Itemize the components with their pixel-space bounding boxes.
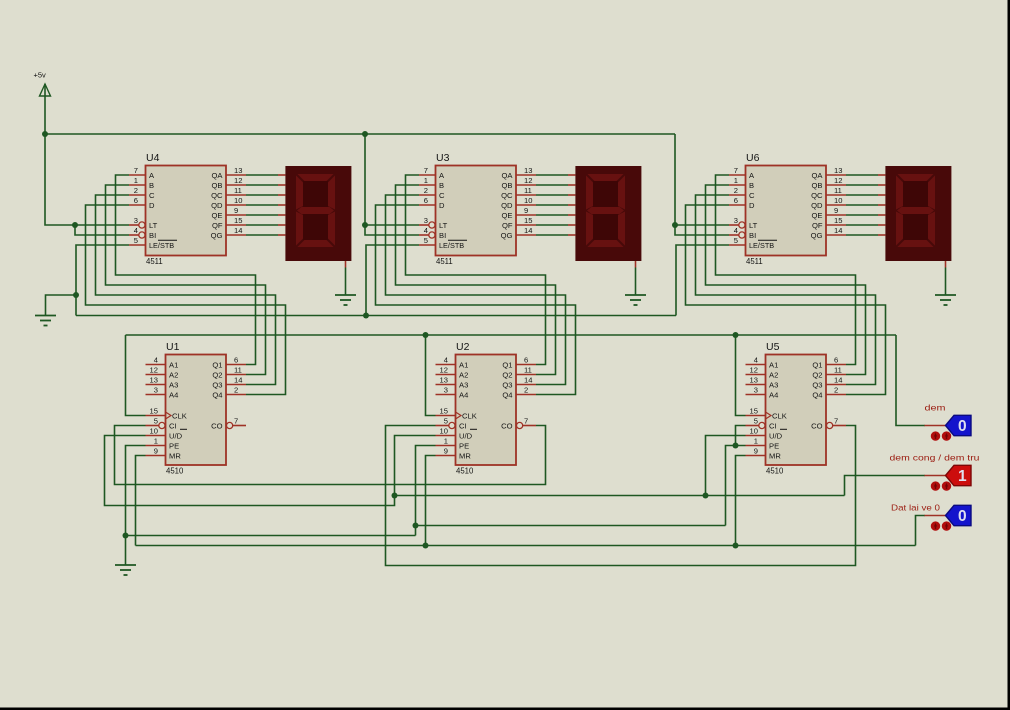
wire net SEG3d <box>846 204 878 206</box>
U5 pin 13 A3 <box>746 376 779 390</box>
svg-text:C: C <box>749 191 755 200</box>
svg-text:9: 9 <box>834 206 838 215</box>
wire net PE U5 CI tie <box>736 426 746 446</box>
DS3 segment b <box>928 176 935 210</box>
op U4 4511 BCD-to-7seg decoder body <box>146 166 227 256</box>
svg-text:A2: A2 <box>769 371 778 380</box>
wire net SEG1f <box>246 224 278 226</box>
U4 pin 7 A <box>129 166 155 180</box>
U6 pin 6 D <box>729 196 755 210</box>
svg-text:10: 10 <box>440 427 448 436</box>
svg-text:4510: 4510 <box>766 467 784 476</box>
svg-text:5: 5 <box>154 417 158 426</box>
logicstate LS1 body <box>946 415 972 435</box>
svg-text:4: 4 <box>444 356 448 365</box>
svg-text:2: 2 <box>234 386 238 395</box>
svg-text:7: 7 <box>424 166 428 175</box>
svg-text:B: B <box>439 181 444 190</box>
wire net MR U2 branch <box>426 456 436 546</box>
svg-text:10: 10 <box>750 427 758 436</box>
svg-text:A4: A4 <box>459 391 468 400</box>
junction CLK U2 <box>423 332 429 338</box>
svg-text:3: 3 <box>734 216 738 225</box>
svg-text:CLK: CLK <box>172 412 187 421</box>
ground B (PE net) <box>115 565 136 575</box>
U1 pin 14 Q3 <box>212 376 246 390</box>
svg-text:A3: A3 <box>769 381 778 390</box>
U3 pin 4 BI <box>419 226 446 240</box>
wire net GND U3 LE/STB drop <box>366 245 419 316</box>
U5 pin 11 Q2 <box>812 366 846 380</box>
wire net MR U1 branch <box>136 456 146 546</box>
U3 pin 1 B <box>419 176 444 190</box>
svg-text:QC: QC <box>501 191 513 200</box>
wire net +5V U6 BI branch <box>675 225 729 235</box>
svg-text:6: 6 <box>834 356 838 365</box>
svg-text:15: 15 <box>524 216 532 225</box>
wire net U/D rail <box>395 495 845 497</box>
svg-text:1: 1 <box>958 468 967 485</box>
svg-text:11: 11 <box>524 186 532 195</box>
svg-text:9: 9 <box>444 447 448 456</box>
svg-text:4: 4 <box>734 226 738 235</box>
U1 pin 6 Q1 <box>212 356 246 370</box>
U1 pin 2 Q4 <box>212 386 246 400</box>
svg-text:U1: U1 <box>166 341 180 353</box>
DS1 segment pin f <box>278 224 285 226</box>
DS1 segment pin a <box>278 174 285 176</box>
U4 pin 10 QD <box>211 196 246 210</box>
wire net BCD1 C/Q3 <box>96 195 276 385</box>
DS2 segment pin a <box>568 174 575 176</box>
wire net SEG3b <box>846 184 878 186</box>
U4 pin 2 C <box>129 186 155 200</box>
junction PE ground B <box>123 533 129 539</box>
DS3 digit hole top <box>903 181 928 207</box>
U5 pin 10 U/D <box>746 427 788 441</box>
wire net +5V U4 BI branch <box>75 225 129 235</box>
svg-text:11: 11 <box>834 366 842 375</box>
DS3 segment pin b <box>878 184 885 186</box>
U6 pin 11 QC <box>811 186 846 200</box>
svg-text:6: 6 <box>424 196 428 205</box>
U1 pin 11 Q2 <box>212 366 246 380</box>
svg-text:dem: dem <box>925 403 946 413</box>
svg-text:BI: BI <box>749 231 756 240</box>
svg-text:B: B <box>149 181 154 190</box>
svg-text:7: 7 <box>524 417 528 426</box>
wire net MR U5 branch <box>736 456 746 546</box>
U6 pin 14 QG <box>811 226 846 240</box>
DS2 segment pin g <box>568 234 575 236</box>
svg-text:Q1: Q1 <box>212 361 222 370</box>
svg-text:7: 7 <box>834 417 838 426</box>
svg-text:15: 15 <box>750 407 758 416</box>
svg-text:MR: MR <box>169 452 181 461</box>
DS2 common pin <box>635 261 637 268</box>
wire net BCD3 C/Q3 <box>696 195 876 385</box>
wire net +5V U3 branch <box>365 134 419 225</box>
svg-text:D: D <box>149 201 155 210</box>
ground A (+5v column) <box>35 316 56 326</box>
wire net +5V rail top <box>45 133 675 135</box>
svg-text:QD: QD <box>211 201 223 210</box>
svg-text:Q2: Q2 <box>212 371 222 380</box>
DS3 segment f <box>896 176 903 210</box>
wire net PE U1 drop to ground B <box>126 446 146 566</box>
U6 pin 9 QE <box>812 206 846 220</box>
U5 pin 4 A1 <box>746 356 779 370</box>
svg-text:QD: QD <box>501 201 513 210</box>
DS2 segment pin f <box>568 224 575 226</box>
wire net BCD3 D/Q4 <box>686 205 886 395</box>
DS2 segment a <box>588 174 624 181</box>
junction +5V U4 LT <box>72 222 78 228</box>
svg-text:QB: QB <box>212 181 223 190</box>
DS3 segment pin c <box>878 194 885 196</box>
svg-text:2: 2 <box>734 186 738 195</box>
DS2 segment pin d <box>568 204 575 206</box>
svg-text:9: 9 <box>234 206 238 215</box>
U6 pin 4 BI <box>729 226 756 240</box>
DS1 segment e <box>296 212 303 246</box>
svg-text:9: 9 <box>754 447 758 456</box>
DS3 segment d <box>898 240 934 247</box>
DS2 segment pin b <box>568 184 575 186</box>
svg-text:4: 4 <box>134 226 138 235</box>
svg-text:+5v: +5v <box>34 71 47 80</box>
junction CLK U5 <box>733 332 739 338</box>
svg-text:QF: QF <box>212 221 223 230</box>
junction PE U2 <box>413 523 419 529</box>
svg-text:4511: 4511 <box>746 257 763 266</box>
U4 pin 13 QA <box>212 166 246 180</box>
svg-text:7: 7 <box>734 166 738 175</box>
svg-text:LT: LT <box>439 221 448 230</box>
U2 pin 9 MR <box>436 447 472 461</box>
U1 pin 15 CLK <box>146 407 187 421</box>
wire net SEG2d <box>536 204 568 206</box>
svg-text:2: 2 <box>834 386 838 395</box>
svg-text:CI: CI <box>459 422 467 431</box>
wire net CI2 U2.CI to U5.CO <box>386 426 856 566</box>
wire net MR to logicstate Dat lai ve 0 <box>916 516 926 546</box>
window border right <box>1008 0 1010 710</box>
svg-text:4511: 4511 <box>146 257 163 266</box>
DS1 segment g <box>297 207 334 214</box>
U3 pin 12 QB <box>502 176 536 190</box>
U1 pin 13 A3 <box>146 376 179 390</box>
svg-text:QA: QA <box>812 171 824 180</box>
svg-text:QC: QC <box>811 191 823 200</box>
U6 pin 15 QF <box>812 216 846 230</box>
DS3 segment g <box>897 207 934 214</box>
svg-text:U5: U5 <box>766 341 780 353</box>
svg-text:Q1: Q1 <box>812 361 822 370</box>
DS2 segment b <box>618 176 625 210</box>
svg-text:QA: QA <box>502 171 514 180</box>
svg-text:13: 13 <box>150 376 158 385</box>
svg-text:MR: MR <box>769 452 781 461</box>
ground DS2 <box>625 295 646 305</box>
wire net CLK rail <box>126 334 897 336</box>
U1 pin 12 A2 <box>146 366 179 380</box>
junction U/D U2 <box>392 493 398 499</box>
DS1 segment pin c <box>278 194 285 196</box>
svg-text:BI: BI <box>439 231 446 240</box>
U5 pin 9 MR <box>746 447 782 461</box>
DS3 segment pin f <box>878 224 885 226</box>
svg-text:14: 14 <box>834 226 842 235</box>
U4 pin 4 BI <box>129 226 156 240</box>
svg-text:12: 12 <box>440 366 448 375</box>
svg-text:4511: 4511 <box>436 257 453 266</box>
wire net SEG2a <box>536 174 568 176</box>
U6 pin 13 QA <box>812 166 846 180</box>
svg-text:5: 5 <box>754 417 758 426</box>
DS1 segment c <box>328 212 335 246</box>
svg-text:A2: A2 <box>169 371 178 380</box>
U6 pin 12 QB <box>812 176 846 190</box>
svg-text:6: 6 <box>524 356 528 365</box>
U1 pin 4 A1 <box>146 356 179 370</box>
svg-text:LT: LT <box>749 221 758 230</box>
U2 pin 6 Q1 <box>502 356 536 370</box>
svg-text:4: 4 <box>424 226 428 235</box>
wire net PE rail2 <box>416 525 726 527</box>
logicstate LS3 body <box>946 505 972 525</box>
wire net SEG3f <box>846 224 878 226</box>
junction MR U5 <box>733 543 739 549</box>
U1 pin 7 CO <box>211 417 246 431</box>
svg-text:4: 4 <box>154 356 158 365</box>
wire net BCD2 D/Q4 <box>376 205 576 395</box>
svg-text:14: 14 <box>234 226 242 235</box>
U4 pin 6 D <box>129 196 155 210</box>
DS2 segment pin c <box>568 194 575 196</box>
power +5v symbol <box>40 84 51 134</box>
wire net SEG2g <box>536 234 568 236</box>
svg-text:CO: CO <box>501 422 512 431</box>
svg-text:10: 10 <box>524 196 532 205</box>
svg-text:Q3: Q3 <box>212 381 222 390</box>
7-segment display DS1 body <box>285 166 351 261</box>
wire net GND rail <box>76 315 676 317</box>
svg-text:U/D: U/D <box>459 432 473 441</box>
svg-text:5: 5 <box>134 236 138 245</box>
DS2 segment pin e <box>568 214 575 216</box>
U5 pin 5 CI <box>746 417 777 431</box>
logicstate LS2 toggle arrows <box>931 481 951 490</box>
U2 pin 2 Q4 <box>502 386 536 400</box>
U4 pin 3 LT <box>129 216 158 230</box>
wire net U/D to logicstate dem cong/dem tru <box>845 476 926 496</box>
svg-text:14: 14 <box>234 376 242 385</box>
wire net BCD2 C/Q3 <box>386 195 566 385</box>
wire net BCD1 A/Q1 <box>116 175 256 365</box>
svg-text:10: 10 <box>834 196 842 205</box>
logicstate LS2 pin <box>925 475 946 477</box>
DS2 segment d <box>588 240 624 247</box>
svg-text:12: 12 <box>834 176 842 185</box>
svg-text:BI: BI <box>149 231 156 240</box>
junction GND at (76,295) <box>73 292 79 298</box>
U4 pin 1 B <box>129 176 154 190</box>
wire net SEG1a <box>246 174 278 176</box>
svg-text:U/D: U/D <box>769 432 783 441</box>
svg-text:QG: QG <box>501 231 513 240</box>
7-segment display DS3 body <box>885 166 951 261</box>
U3 pin 10 QD <box>501 196 536 210</box>
wire net SEG3c <box>846 194 878 196</box>
svg-text:15: 15 <box>234 216 242 225</box>
U2 pin 10 U/D <box>436 427 478 441</box>
DS3 segment e <box>896 212 903 246</box>
U3 pin 13 QA <box>502 166 536 180</box>
wire net PE rail1 <box>126 535 416 537</box>
U2 pin 11 Q2 <box>502 366 536 380</box>
junction +5V at power drop <box>42 131 48 137</box>
svg-text:QB: QB <box>812 181 823 190</box>
wire net BCD3 B/Q2 <box>706 185 866 375</box>
window border bottom <box>0 708 1010 710</box>
svg-text:5: 5 <box>734 236 738 245</box>
U6 pin 10 QD <box>811 196 846 210</box>
svg-text:13: 13 <box>234 166 242 175</box>
U5 pin 1 PE <box>746 437 780 451</box>
DS2 segment f <box>586 176 593 210</box>
svg-text:15: 15 <box>150 407 158 416</box>
svg-text:Q4: Q4 <box>502 391 512 400</box>
svg-text:Q3: Q3 <box>502 381 512 390</box>
svg-text:15: 15 <box>834 216 842 225</box>
U6 pin 3 LT <box>729 216 758 230</box>
logicstate LS3 pin <box>925 515 946 517</box>
DS1 segment pin b <box>278 184 285 186</box>
U5 pin 6 Q1 <box>812 356 846 370</box>
DS3 segment pin g <box>878 234 885 236</box>
svg-text:14: 14 <box>524 226 532 235</box>
svg-text:11: 11 <box>524 366 532 375</box>
wire net SEG3g <box>846 234 878 236</box>
svg-text:C: C <box>149 191 155 200</box>
DS3 digit hole bottom <box>903 214 928 240</box>
U3 pin 3 LT <box>419 216 448 230</box>
U5 pin 14 Q3 <box>812 376 846 390</box>
U3 pin 15 QF <box>502 216 536 230</box>
wire net BCD1 B/Q2 <box>106 185 266 375</box>
logicstate LS3 toggle arrows <box>931 521 951 530</box>
svg-text:10: 10 <box>150 427 158 436</box>
svg-text:U2: U2 <box>456 341 470 353</box>
U5 pin 15 CLK <box>746 407 787 421</box>
wire net SEG3a <box>846 174 878 176</box>
svg-text:Dat lai ve 0: Dat lai ve 0 <box>891 503 940 513</box>
svg-text:U3: U3 <box>436 152 450 164</box>
DS3 segment pin e <box>878 214 885 216</box>
svg-text:Q1: Q1 <box>502 361 512 370</box>
U3 pin 6 D <box>419 196 445 210</box>
wire DS3 common to ground <box>945 268 947 296</box>
svg-text:4510: 4510 <box>166 467 184 476</box>
svg-text:3: 3 <box>754 386 758 395</box>
svg-text:0: 0 <box>958 508 967 525</box>
DS3 segment c <box>928 212 935 246</box>
svg-text:QG: QG <box>211 231 223 240</box>
U6 pin 2 C <box>729 186 755 200</box>
wire net PE U2 branch <box>416 446 436 536</box>
U4 pin 9 QE <box>212 206 246 220</box>
svg-text:2: 2 <box>134 186 138 195</box>
svg-text:Q3: Q3 <box>812 381 822 390</box>
junction MR U2 <box>423 543 429 549</box>
U2 pin 5 CI <box>436 417 467 431</box>
wire net U/D U5 branch <box>706 436 746 496</box>
junction +5V U6 LT <box>672 222 678 228</box>
svg-text:QG: QG <box>811 231 823 240</box>
svg-text:2: 2 <box>524 386 528 395</box>
wire net GND U4 LE/STB drop <box>76 245 129 316</box>
U2 pin 3 A4 <box>436 386 469 400</box>
svg-text:6: 6 <box>134 196 138 205</box>
logicstate LS2 body <box>946 465 972 485</box>
logicstate LS1 pin <box>925 425 946 427</box>
U1 pin 10 U/D <box>146 427 188 441</box>
wire net MR rail <box>136 545 916 547</box>
svg-text:QC: QC <box>211 191 223 200</box>
DS2 digit hole top <box>593 181 618 207</box>
svg-text:6: 6 <box>734 196 738 205</box>
svg-text:LE/STB: LE/STB <box>439 241 464 250</box>
svg-text:LE/STB: LE/STB <box>749 241 774 250</box>
svg-text:12: 12 <box>524 176 532 185</box>
svg-text:Q2: Q2 <box>502 371 512 380</box>
svg-text:1: 1 <box>424 176 428 185</box>
svg-text:A4: A4 <box>169 391 178 400</box>
wire net SEG1d <box>246 204 278 206</box>
svg-text:A3: A3 <box>459 381 468 390</box>
svg-text:15: 15 <box>440 407 448 416</box>
U2 pin 4 A1 <box>436 356 469 370</box>
wire net CLK U2 branch <box>426 335 436 416</box>
ground DS1 <box>335 295 356 305</box>
svg-text:PE: PE <box>459 442 469 451</box>
wire net SEG2c <box>536 194 568 196</box>
U5 pin 12 A2 <box>746 366 779 380</box>
svg-text:QE: QE <box>502 211 513 220</box>
7-segment display DS2 body <box>575 166 641 261</box>
svg-text:0: 0 <box>958 418 967 435</box>
wire net +5V drop from power to LT row <box>45 134 129 225</box>
svg-text:1: 1 <box>444 437 448 446</box>
svg-text:13: 13 <box>834 166 842 175</box>
DS2 segment g <box>587 207 624 214</box>
svg-text:1: 1 <box>734 176 738 185</box>
DS1 segment d <box>298 240 334 247</box>
op U6 4511 BCD-to-7seg decoder body <box>746 166 827 256</box>
svg-text:14: 14 <box>834 376 842 385</box>
DS1 digit hole top <box>303 181 328 207</box>
svg-text:CO: CO <box>811 422 822 431</box>
counter U2 4510 body <box>456 355 517 466</box>
wire net +5V U6 branch <box>675 134 729 225</box>
DS3 segment pin d <box>878 204 885 206</box>
svg-text:12: 12 <box>234 176 242 185</box>
counter U5 4510 body <box>766 355 827 466</box>
svg-text:D: D <box>749 201 755 210</box>
svg-text:1: 1 <box>134 176 138 185</box>
svg-text:A1: A1 <box>769 361 778 370</box>
